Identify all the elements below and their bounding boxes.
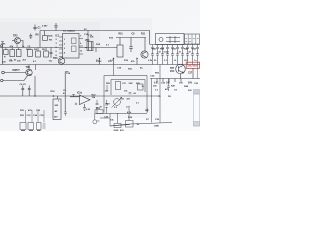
wire R3 leads [29, 48, 31, 50]
cap C40 [117, 113, 119, 124]
enclosure box [104, 76, 147, 113]
photo strip box [194, 90, 200, 95]
cap C12 [28, 86, 31, 97]
box E2 [28, 123, 34, 130]
svg-text:VR1: VR1 [85, 40, 90, 42]
svg-text:INPUT: INPUT [13, 69, 21, 72]
drop cap 2 [105, 100, 108, 105]
wire mid-left rail [0, 47, 62, 49]
U2 input cap [72, 94, 77, 105]
svg-text:10V: 10V [179, 83, 183, 85]
wire R1 leads [11, 48, 13, 50]
capacitor column 7 [181, 45, 184, 65]
box E1 [20, 123, 26, 130]
scan shade top band [0, 22, 100, 66]
pot arrow [112, 97, 122, 107]
capacitor column 2 [156, 45, 159, 65]
wire top rail [40, 31, 150, 45]
terminal J2 [1, 79, 3, 81]
stub pair [96, 107, 108, 114]
wire Q5 down [180, 74, 182, 79]
wire R7 leads [44, 31, 46, 36]
wire stub 1 [99, 59, 101, 65]
bottom cap [194, 122, 200, 127]
wire R4 leads [37, 48, 39, 52]
transistor Q3 [26, 69, 32, 75]
terminal J1 [2, 71, 5, 74]
paper background [0, 0, 200, 131]
low rail stubs [157, 79, 181, 83]
capacitor C3 [29, 34, 32, 40]
wire stub 2 [113, 58, 115, 65]
IC U1 [56, 34, 84, 59]
resistor R1 [10, 50, 15, 57]
inner rect comp 2 [138, 84, 144, 90]
svg-text:GND: GND [114, 130, 119, 131]
svg-text:C4 C5: C4 C5 [20, 83, 27, 86]
transistor Q2 [141, 51, 148, 58]
svg-text:50V: 50V [188, 83, 193, 85]
capacitor C2 [50, 48, 53, 59]
tall light box [194, 94, 200, 126]
wire red drop [192, 68, 194, 78]
top small parts [29, 23, 57, 42]
wire Q2 base [144, 38, 146, 51]
capacitor column 3 [161, 45, 164, 65]
svg-text:TR3: TR3 [53, 57, 58, 60]
svg-text:TR2: TR2 [13, 35, 18, 38]
capacitor column 9 [191, 45, 194, 65]
table ticks [186, 39, 199, 42]
left upper section [1, 35, 65, 65]
svg-text:IC2a: IC2a [77, 93, 83, 95]
right upper group [117, 34, 148, 59]
left input section [1, 65, 36, 97]
block B1 [53, 99, 61, 120]
wire R12 lead [119, 38, 121, 46]
svg-text:0.022: 0.022 [164, 52, 170, 54]
capacitor column 1 [151, 45, 154, 65]
capacitor column 10 [196, 45, 199, 65]
wire mid-center rail [79, 47, 117, 49]
wire right low rail [150, 78, 200, 80]
wire T1 top [87, 31, 89, 42]
pot circle [114, 99, 121, 106]
svg-text:2SC458: 2SC458 [187, 64, 197, 68]
bottom middle section [20, 72, 108, 120]
wire input top [4, 72, 26, 74]
terminal left mid [1, 45, 3, 47]
under line [96, 113, 147, 115]
transistor Q4 [58, 58, 65, 65]
wire Q3 collector up [28, 65, 30, 70]
svg-text:C27: C27 [188, 73, 193, 75]
svg-text:16V: 16V [184, 60, 188, 62]
meter circle [94, 114, 96, 120]
transistor Q5 [176, 64, 186, 74]
wire stub right of Q3 [35, 65, 37, 71]
resistor R12 box [117, 45, 123, 57]
capacitor C4 [54, 23, 57, 31]
right capacitor bank [151, 45, 199, 65]
stub into enclosure [113, 65, 115, 76]
wire Q3 down [34, 76, 36, 96]
wire bottom long [110, 123, 172, 127]
small rect on line [95, 110, 103, 114]
svg-text:220k: 220k [48, 36, 54, 38]
steps [100, 114, 130, 127]
wire bottom rail [0, 95, 160, 97]
wire R5 leads [45, 48, 47, 52]
wire sub rail [116, 37, 146, 39]
resistor R5 [44, 51, 49, 57]
box E3 [37, 123, 42, 130]
bottom marks [43, 124, 46, 128]
wire T1 leads [85, 47, 87, 49]
capacitor C9 [129, 38, 132, 53]
svg-text:R10: R10 [119, 34, 124, 36]
wire Q1 right [21, 41, 24, 48]
wire main mid rail [0, 64, 200, 66]
capacitor column 6 [176, 45, 179, 65]
enclosure [96, 65, 147, 114]
B1 lead [57, 96, 59, 99]
scan shade left band [0, 18, 152, 118]
wire left edge drop [2, 47, 4, 65]
relay box [156, 34, 185, 45]
wire vertical right long [159, 65, 161, 123]
terminal table [185, 34, 200, 44]
svg-text:0.047: 0.047 [42, 25, 48, 28]
svg-text:GND: GND [154, 126, 159, 128]
wire mid drop [65, 72, 68, 112]
op-amp U1 box [63, 34, 80, 59]
under-box ticks [21, 130, 41, 132]
U1 pins left [59, 37, 63, 57]
wire Q1 left [12, 40, 15, 42]
capacitor column 4 [166, 45, 169, 65]
bottom area [20, 107, 149, 132]
wire Q1 drops [16, 43, 18, 47]
right edge light column [194, 90, 200, 127]
U2 below cap [83, 104, 86, 110]
resistor R4 [36, 51, 41, 57]
U2 wires [70, 96, 80, 98]
svg-text:TR1: TR1 [26, 66, 31, 69]
cap inside [129, 93, 132, 94]
transformer T1 [84, 29, 110, 52]
op-amp U2 [80, 95, 91, 105]
right divided box [185, 34, 200, 79]
drop cap 1 [96, 100, 99, 105]
transformer body [87, 42, 93, 51]
wire input bottom [3, 76, 28, 81]
svg-text:R11: R11 [141, 34, 146, 36]
capacitor column 8 [186, 45, 189, 65]
comp at 146 [146, 109, 149, 113]
wire top rail left drop [39, 31, 41, 48]
leads [26, 110, 45, 123]
stub with cap [167, 79, 170, 92]
wires inside [106, 85, 108, 91]
right mid section [150, 62, 199, 91]
resistor R2 [16, 50, 21, 57]
resistor R0 [4, 50, 8, 55]
wire vertical mid right [151, 79, 153, 123]
resistor R7 [43, 36, 48, 41]
svg-text:10u: 10u [49, 61, 53, 63]
wire R2 leads [18, 48, 20, 50]
wire stub x96 [95, 48, 97, 53]
wire stub 3 [136, 59, 138, 65]
cap C11 [21, 86, 24, 97]
stub wires with dots [99, 58, 138, 65]
junction dot 2 [53, 95, 55, 97]
relay RL1 [156, 34, 185, 45]
inner rect comp [116, 82, 121, 90]
wire right rail [150, 44, 200, 46]
resistor R3 [28, 50, 33, 57]
left edge marks [1, 42, 4, 48]
svg-text:TR7: TR7 [170, 68, 175, 70]
res R40 [126, 121, 134, 128]
highlight red box [186, 62, 199, 68]
transistor Q1 [15, 38, 21, 44]
right drop [197, 65, 199, 79]
capacitor column 5 [171, 45, 174, 65]
cap mid drop [64, 112, 67, 116]
svg-text:2SC: 2SC [170, 71, 175, 73]
junction dot [34, 95, 35, 96]
U1 internal rects [72, 38, 77, 44]
wire R0 lead [5, 48, 7, 50]
inner top [111, 80, 145, 96]
capacitor C1 [33, 25, 36, 31]
svg-text:25V: 25V [54, 117, 58, 119]
scattered small labels [2, 25, 199, 133]
U1 pins right [79, 39, 83, 55]
svg-text:IC1 LA4422: IC1 LA4422 [63, 30, 76, 33]
svg-text:0.01: 0.01 [154, 83, 159, 85]
